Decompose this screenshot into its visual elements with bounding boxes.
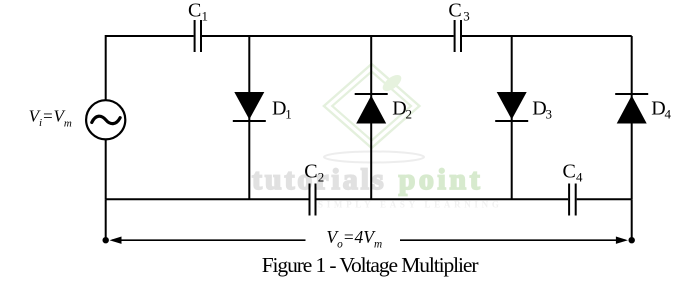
wire: top rail C3 to top-right corner [462,35,632,37]
svg-text:4: 4 [665,107,672,122]
svg-text:C: C [563,161,576,183]
wire: top rail C1 to C3 [202,35,454,37]
svg-text:C: C [304,161,317,183]
watermark tutorialspoint logo [252,64,503,210]
svg-text:point: point [399,163,484,196]
dimension arrow left (Vo span) [110,237,306,244]
capacitor C4 [569,184,576,216]
capacitor C2 [310,184,316,216]
node: output terminal right (dot) [629,237,635,243]
wire: top rail left + source top lead [106,36,194,100]
wire: bottom rail left segment [106,198,309,200]
dimension arrow right (Vo span) [400,237,628,244]
capacitor C3 [455,20,461,52]
svg-text:3: 3 [546,107,553,122]
svg-text:1: 1 [285,107,292,122]
diode D3 [495,92,528,121]
node: output terminal left (dot) [103,237,109,243]
svg-text:1: 1 [202,9,209,24]
svg-text:C: C [448,0,461,22]
svg-text:SIMPLY EASY LEARNING: SIMPLY EASY LEARNING [318,200,503,210]
wire: source bottom lead [105,140,107,200]
diode D4 [615,94,648,124]
capacitor C1 [195,20,201,52]
wire: right stub to output dot [631,199,633,240]
AC source [86,100,125,139]
wire: diode branch D2 [370,36,372,199]
svg-text:C: C [188,0,201,22]
wire: left stub to output dot [105,199,107,240]
svg-text:4: 4 [576,170,583,185]
wire: diode branch D3 [511,36,513,199]
wire: diode branch D1 [248,36,250,199]
svg-text:Vo=4Vm: Vo=4Vm [326,227,382,251]
wire: bottom rail middle segment [317,198,569,200]
svg-text:Figure 1 - Voltage Multiplier: Figure 1 - Voltage Multiplier [262,253,479,277]
svg-text:2: 2 [406,107,413,122]
diode D1 [233,92,266,121]
svg-text:2: 2 [318,170,325,185]
svg-text:Vi=Vm: Vi=Vm [29,107,72,130]
wire: bottom rail right segment [577,198,632,200]
svg-text:3: 3 [463,9,470,24]
diode D2 [355,94,388,124]
wire: diode branch D4 (right edge) [631,36,633,199]
